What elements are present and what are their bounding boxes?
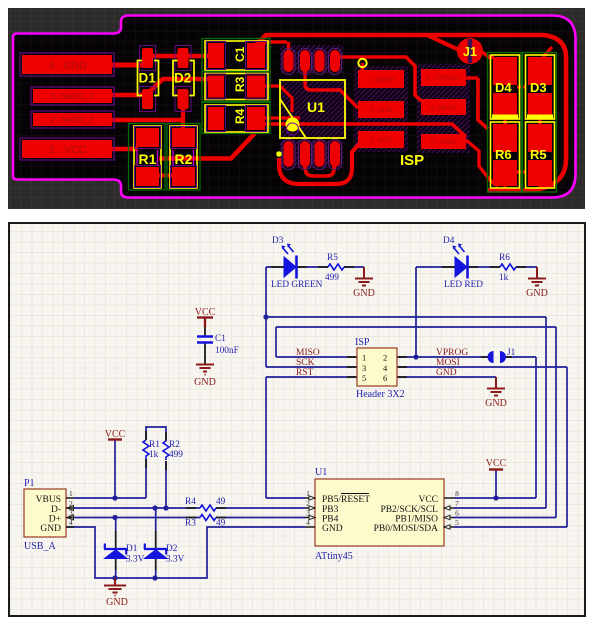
svg-text:PB1/MISO: PB1/MISO bbox=[395, 515, 438, 525]
svg-text:6: 6 bbox=[455, 509, 459, 518]
svg-text:49: 49 bbox=[216, 497, 226, 507]
svg-text:GND: GND bbox=[485, 398, 507, 409]
svg-text:R3: R3 bbox=[185, 519, 196, 529]
svg-text:GND: GND bbox=[194, 377, 216, 388]
svg-text:VBUS: VBUS bbox=[36, 495, 61, 505]
svg-text:J1: J1 bbox=[463, 45, 477, 59]
svg-text:5: 5 bbox=[362, 373, 366, 383]
svg-text:5 : RST: 5 : RST bbox=[370, 136, 393, 144]
svg-text:1 : MISO: 1 : MISO bbox=[368, 76, 394, 84]
svg-text:R4: R4 bbox=[233, 108, 247, 124]
svg-text:PB0/MOSI/SDA: PB0/MOSI/SDA bbox=[374, 524, 439, 534]
svg-text:C1: C1 bbox=[233, 46, 247, 62]
svg-text:3.3V: 3.3V bbox=[126, 555, 145, 565]
svg-text:1: 1 bbox=[69, 489, 73, 498]
svg-text:D+: D+ bbox=[49, 515, 61, 525]
svg-text:7: 7 bbox=[455, 499, 459, 508]
svg-text:D4: D4 bbox=[495, 80, 512, 95]
svg-text:USB_A: USB_A bbox=[24, 541, 56, 552]
svg-text:LED GREEN: LED GREEN bbox=[271, 280, 323, 290]
svg-text:R4: R4 bbox=[185, 497, 196, 507]
svg-text:PB4: PB4 bbox=[322, 515, 339, 525]
svg-text:R1: R1 bbox=[149, 440, 160, 450]
svg-text:SCK: SCK bbox=[296, 358, 315, 368]
svg-text:D2: D2 bbox=[166, 544, 178, 554]
svg-text:1k: 1k bbox=[149, 450, 159, 460]
svg-text:R2: R2 bbox=[169, 440, 180, 450]
svg-text:R5: R5 bbox=[530, 147, 547, 162]
svg-text:GND: GND bbox=[526, 288, 548, 299]
svg-text:1: 1 bbox=[362, 353, 366, 363]
svg-text:PB2/SCK/SCL: PB2/SCK/SCL bbox=[380, 505, 438, 515]
svg-text:U1: U1 bbox=[315, 467, 327, 478]
svg-text:ATtiny45: ATtiny45 bbox=[315, 551, 353, 562]
svg-text:MISO: MISO bbox=[296, 348, 320, 358]
svg-text:VCC: VCC bbox=[418, 495, 438, 505]
svg-text:MOSI: MOSI bbox=[436, 358, 460, 368]
svg-text:VCC: VCC bbox=[486, 458, 507, 469]
svg-text:2 : VPROG: 2 : VPROG bbox=[427, 74, 460, 82]
svg-text:R5: R5 bbox=[327, 253, 338, 263]
svg-text:J1: J1 bbox=[507, 348, 516, 358]
svg-text:GND: GND bbox=[353, 288, 375, 299]
svg-text:3 : NetD1_2: 3 : NetD1_2 bbox=[51, 92, 94, 101]
svg-text:D1: D1 bbox=[139, 71, 157, 86]
svg-text:4 : MOSI: 4 : MOSI bbox=[430, 104, 457, 112]
svg-text:8: 8 bbox=[455, 489, 459, 498]
svg-text:D2: D2 bbox=[174, 71, 191, 86]
svg-text:RST: RST bbox=[296, 368, 314, 378]
svg-text:3.3V: 3.3V bbox=[166, 555, 185, 565]
svg-text:VCC: VCC bbox=[195, 307, 216, 318]
svg-text:100nF: 100nF bbox=[215, 346, 239, 356]
svg-text:4: 4 bbox=[69, 518, 73, 527]
svg-text:5: 5 bbox=[455, 518, 459, 527]
svg-text:2 : NetD2_2: 2 : NetD2_2 bbox=[51, 116, 94, 125]
svg-text:6: 6 bbox=[383, 373, 387, 383]
svg-text:1 : VCC: 1 : VCC bbox=[50, 144, 87, 156]
svg-text:GND: GND bbox=[106, 597, 128, 608]
svg-text:6 : GND: 6 : GND bbox=[431, 138, 455, 146]
svg-text:VPROG: VPROG bbox=[436, 348, 468, 358]
svg-text:VCC: VCC bbox=[105, 429, 126, 440]
svg-text:R1: R1 bbox=[139, 151, 157, 167]
svg-text:4 : GND: 4 : GND bbox=[49, 60, 87, 72]
svg-text:GND: GND bbox=[40, 524, 61, 534]
svg-text:R6: R6 bbox=[495, 147, 512, 162]
svg-text:2: 2 bbox=[69, 499, 73, 508]
svg-text:PB5/RESET: PB5/RESET bbox=[322, 495, 370, 505]
svg-text:499: 499 bbox=[169, 450, 183, 460]
svg-text:P1: P1 bbox=[24, 478, 35, 489]
svg-text:C1: C1 bbox=[215, 334, 226, 344]
svg-text:D4: D4 bbox=[443, 236, 455, 246]
svg-text:1k: 1k bbox=[499, 273, 509, 283]
svg-text:D3: D3 bbox=[272, 236, 284, 246]
svg-text:ISP: ISP bbox=[355, 337, 370, 348]
svg-text:D-: D- bbox=[51, 505, 61, 515]
svg-text:3 : SCK: 3 : SCK bbox=[370, 106, 393, 114]
svg-text:3: 3 bbox=[362, 363, 366, 373]
svg-text:GND: GND bbox=[436, 368, 457, 378]
svg-text:3: 3 bbox=[69, 509, 73, 518]
svg-text:U1: U1 bbox=[307, 99, 325, 115]
svg-text:R6: R6 bbox=[499, 253, 510, 263]
svg-text:D1: D1 bbox=[126, 544, 138, 554]
svg-text:PB3: PB3 bbox=[322, 505, 339, 515]
svg-text:499: 499 bbox=[325, 273, 339, 283]
svg-text:Header 3X2: Header 3X2 bbox=[356, 389, 405, 400]
svg-text:R2: R2 bbox=[175, 151, 193, 167]
svg-text:ISP: ISP bbox=[400, 152, 424, 169]
svg-text:GND: GND bbox=[322, 524, 343, 534]
svg-text:49: 49 bbox=[216, 519, 226, 529]
svg-text:2: 2 bbox=[383, 353, 387, 363]
svg-text:R3: R3 bbox=[233, 76, 247, 92]
svg-text:D3: D3 bbox=[530, 80, 547, 95]
svg-text:LED RED: LED RED bbox=[444, 280, 483, 290]
